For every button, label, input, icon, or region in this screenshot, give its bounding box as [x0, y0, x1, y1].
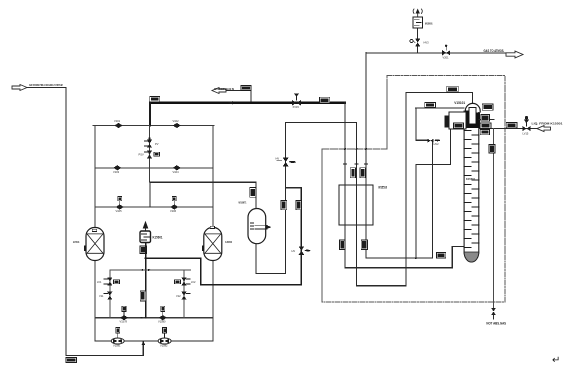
condenser black tab	[444, 116, 449, 128]
wire frame row y167.8	[95, 167, 213, 169]
condenser box left of dome	[449, 112, 466, 129]
wire regen riser x285.6	[285, 123, 287, 274]
column trays	[464, 131, 479, 248]
valve actuated on y207 right	[170, 196, 178, 213]
svg-text:V102: V102	[173, 119, 180, 123]
valve with solid actuator x526.5	[523, 116, 531, 135]
blower K15601 vent arrow	[143, 222, 147, 231]
svg-text:AIR FROM PRE-COOLING SYSTEM: AIR FROM PRE-COOLING SYSTEM	[29, 83, 63, 87]
svg-text:V103: V103	[113, 170, 120, 174]
svg-text:W15671: W15671	[239, 201, 247, 205]
svg-text:↵: ↵	[552, 355, 560, 366]
wire K15601 discharge x146	[145, 243, 147, 318]
wire left frame rail right x212.8	[212, 125, 214, 341]
wire center vertical x149.5	[149, 126, 151, 183]
wire y122.6 cross line	[286, 122, 357, 124]
svg-text:HV3: HV3	[424, 41, 430, 45]
wire capsule bottom loop	[256, 244, 286, 274]
exchanger W15510	[339, 185, 373, 225]
vessel W15671 capsule heater	[248, 209, 266, 244]
instrument tag on x146 y291	[140, 291, 146, 301]
instrument tag on y258 near column	[436, 253, 445, 258]
wire K discharge branch y258.4	[146, 188, 302, 285]
valve on y52.8 x446.2	[442, 45, 450, 60]
instrument tag trunk x320	[320, 97, 330, 103]
instrument tag on x345 y168	[350, 168, 355, 178]
svg-text:V1580: V1580	[158, 320, 166, 324]
wire frame row y317.7	[95, 317, 213, 319]
valve on x184 lower	[176, 292, 190, 300]
component heater internals W15671	[251, 223, 271, 232]
valve bowtie y119.5	[479, 119, 494, 121]
vessel A15601 adsorber	[84, 228, 104, 261]
node junction dots y317.7	[141, 317, 143, 319]
wire inlet line to bottom loop	[27, 88, 143, 356]
svg-text:V101: V101	[114, 119, 121, 123]
svg-text:V1578: V1578	[120, 320, 128, 324]
svg-text:PV: PV	[155, 142, 159, 146]
wire bypass rect y269.9	[110, 269, 191, 271]
instrument tag dark y129.4	[480, 129, 489, 134]
node flow arrows on y269.9	[140, 269, 151, 271]
svg-text:V104: V104	[173, 170, 180, 174]
valve gate on y125.5 right	[173, 119, 181, 128]
valve solid angle on trunk x296.5	[292, 93, 301, 109]
silencer M15601 body	[413, 17, 423, 28]
svg-text:LV15: LV15	[523, 131, 529, 135]
svg-text:V1581: V1581	[113, 344, 121, 348]
instrument tag on x366 y240	[361, 240, 367, 250]
node junction x415.9 y258	[415, 257, 417, 259]
dome internal reflux box	[469, 108, 476, 125]
node flow arrow on trunk	[229, 101, 233, 104]
wire inner rect left leg x150 182-207	[149, 182, 151, 207]
svg-text:NOT ABS.GAS: NOT ABS.GAS	[486, 322, 506, 326]
instrument tag on y93	[447, 86, 459, 92]
valve on x110 upper with handle	[97, 278, 120, 286]
wire trunk main air line	[150, 102, 345, 104]
svg-text:HV: HV	[292, 249, 296, 253]
wire stream3 x366 vent	[366, 53, 433, 258]
column dome V15101	[465, 103, 480, 112]
valve actuated on y341 right	[158, 328, 171, 348]
wire y164.3	[416, 129, 451, 164]
node junction dot x149.5 y138.6	[148, 138, 150, 140]
wire regen inlet leader	[226, 90, 251, 103]
wire stream1 x345 trunk to y267.7	[345, 103, 465, 268]
liquid outlet line y128.6	[479, 128, 537, 130]
flag arrow regeneration-gas inlet	[212, 88, 226, 94]
valve actuated on y317.7 left	[120, 306, 129, 323]
wire frame row y341	[95, 340, 213, 342]
valve actuated on y341 left	[111, 328, 124, 348]
svg-text:HV: HV	[276, 156, 280, 160]
wire bypass left leg x110	[109, 270, 111, 318]
node junction K discharge	[145, 257, 147, 259]
cold box dashed boundary	[322, 75, 505, 301]
valve on riser	[410, 39, 429, 47]
svg-text:K15601: K15601	[153, 235, 163, 239]
instrument tag bottom left	[66, 358, 77, 363]
node junction dots on dashed crossing	[344, 148, 346, 150]
svg-text:V201: V201	[443, 56, 450, 60]
svg-text:PSV: PSV	[139, 153, 144, 157]
instrument tag on y108	[425, 102, 436, 107]
svg-text:A15601: A15601	[73, 240, 80, 244]
wire x415.9 lower leg	[415, 164, 417, 258]
column bottom sump fill	[464, 252, 479, 262]
instrument tag white y123	[480, 123, 491, 129]
valve gate on y125.5 left	[114, 119, 123, 128]
dome side black fills	[465, 111, 469, 126]
svg-text:GAS TO ATMOS.: GAS TO ATMOS.	[484, 49, 505, 53]
instrument tag on x285.6 y200	[281, 200, 287, 209]
valve on x110 lower	[99, 292, 112, 300]
valve actuated on y317.7 right	[158, 306, 167, 323]
wire frame top row y125.5	[93, 125, 214, 127]
svg-text:M15601: M15601	[425, 22, 433, 26]
instrument tag on x495	[489, 145, 495, 154]
instrument tag regen inlet	[241, 86, 251, 91]
instrument tag on x256 y188	[250, 188, 256, 198]
blower K15601 body	[140, 231, 151, 243]
instrument tag dark y115.6	[481, 115, 490, 122]
valve on x184 upper with tag	[175, 278, 196, 286]
flag arrow air-from-precooling	[12, 85, 27, 91]
vent line y52.8	[366, 52, 506, 54]
wire frame row y207	[95, 206, 213, 208]
svg-text:V12: V12	[176, 294, 181, 298]
instrument tag on x345 y240	[340, 240, 345, 250]
valve hourglass on x495	[491, 308, 496, 315]
wire drain x495	[493, 129, 495, 308]
wire x432.5 down leg	[432, 143, 434, 259]
svg-text:LV1: LV1	[97, 280, 102, 284]
wire stream2 x356.5	[357, 93, 473, 286]
svg-text:HV2: HV2	[434, 142, 440, 146]
wire line y182.2 to capsule	[150, 181, 256, 183]
flag arrow gas-to-atmosphere	[506, 51, 523, 58]
wire jog y187.7	[286, 187, 302, 189]
wire drain tail	[493, 315, 495, 319]
svg-text:V106: V106	[170, 209, 177, 213]
column K15501 body	[464, 111, 479, 262]
vessel A15602 adsorber	[202, 226, 222, 260]
svg-text:V11: V11	[99, 294, 104, 298]
wire left frame rail left x95	[94, 126, 96, 342]
svg-text:V15101: V15101	[454, 101, 465, 105]
svg-text:V105: V105	[116, 209, 123, 213]
instrument tag in condenser box	[454, 123, 464, 128]
svg-text:A15602: A15602	[225, 240, 232, 244]
valve gate on y167.8 right	[173, 165, 181, 174]
wire capsule top feed x256	[255, 182, 257, 208]
valve PV on x149.5 upper	[145, 140, 159, 148]
svg-text:V1582: V1582	[160, 344, 168, 348]
svg-text:LV2: LV2	[191, 280, 196, 284]
node arrow on drain riser x143.3	[142, 341, 146, 345]
instrument tag on x301.4 y200	[296, 200, 302, 209]
instrument tag trunk left end	[150, 97, 160, 102]
node break ticks y164	[344, 163, 368, 165]
wire y108 to column	[416, 107, 464, 109]
instrument tag below K15601	[140, 246, 147, 254]
valve on x301.4 liquid drain	[292, 247, 311, 255]
instrument tag right of coldbox	[506, 123, 517, 128]
flag arrow liq-from	[537, 126, 551, 132]
instrument tag above y104	[482, 104, 493, 110]
wire sidebranch x415.9	[416, 108, 428, 140]
valve butterfly x432.5 top	[428, 139, 441, 146]
svg-text:XV15: XV15	[293, 105, 300, 109]
column black band	[465, 124, 479, 128]
svg-text:W15510: W15510	[378, 185, 387, 189]
wire trunk left drop to frame	[149, 103, 151, 126]
svg-text:K15501: K15501	[466, 177, 475, 181]
valve butterfly on x285.6	[276, 156, 297, 166]
wire bypass right leg x184	[183, 270, 185, 318]
silencer M15601 riser	[417, 28, 419, 53]
valve gate on y167.8 left	[113, 165, 121, 174]
valve actuated on y207 left	[116, 196, 124, 213]
valve on x149.5 lower with tag	[139, 151, 160, 159]
svg-text:LIQ. FROM K15501: LIQ. FROM K15501	[532, 121, 563, 125]
silencer top arrow	[413, 9, 422, 17]
instrument tag on x366 y168	[360, 168, 366, 178]
